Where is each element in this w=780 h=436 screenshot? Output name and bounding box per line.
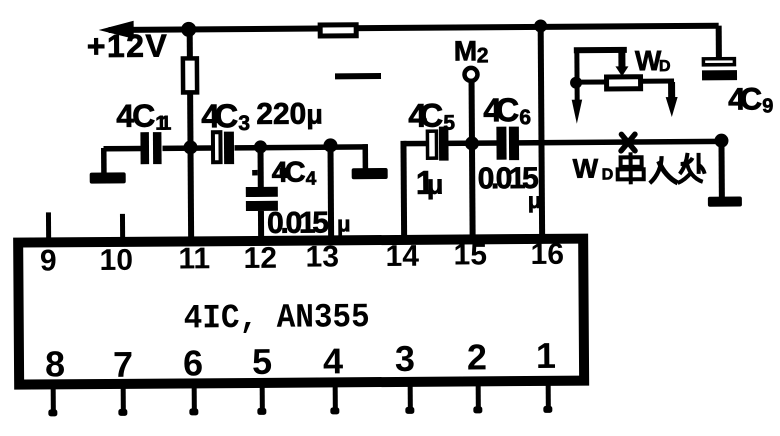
svg-text:μ: μ	[337, 211, 351, 236]
svg-text:4: 4	[323, 340, 343, 381]
svg-text:220: 220	[256, 98, 306, 131]
svg-text:0.015: 0.015	[267, 206, 329, 239]
svg-text:M: M	[454, 35, 478, 66]
svg-text:+12V: +12V	[87, 28, 168, 65]
svg-text:μ: μ	[306, 99, 323, 129]
svg-text:2: 2	[477, 44, 489, 67]
svg-text:4C: 4C	[201, 97, 238, 134]
svg-text:13: 13	[305, 240, 339, 273]
svg-text:1: 1	[536, 335, 556, 376]
svg-text:3: 3	[395, 338, 415, 379]
svg-text:10: 10	[99, 244, 133, 277]
svg-text:3: 3	[238, 112, 250, 135]
svg-text:μ: μ	[427, 170, 444, 200]
svg-text:6: 6	[519, 106, 531, 129]
svg-text:4: 4	[306, 169, 317, 190]
svg-text:12: 12	[243, 242, 277, 275]
svg-text:4C: 4C	[272, 157, 306, 189]
svg-text:W: W	[573, 154, 599, 184]
svg-text:4C: 4C	[408, 97, 443, 134]
svg-text:2: 2	[467, 336, 487, 377]
svg-text:4IC, AN355: 4IC, AN355	[184, 299, 370, 338]
svg-text:15: 15	[453, 238, 487, 271]
svg-text:11: 11	[178, 242, 210, 275]
svg-text:5: 5	[443, 112, 455, 135]
svg-text:14: 14	[385, 240, 419, 273]
svg-text:11: 11	[155, 113, 171, 135]
svg-text:9: 9	[40, 244, 57, 277]
svg-text:D: D	[602, 166, 614, 183]
svg-text:8: 8	[45, 343, 65, 384]
svg-text:4C: 4C	[483, 91, 519, 128]
svg-text:4C: 4C	[728, 81, 762, 116]
svg-text:9: 9	[762, 95, 773, 117]
svg-text:μ: μ	[528, 188, 542, 213]
svg-text:4C: 4C	[116, 98, 155, 134]
svg-text:7: 7	[113, 344, 133, 385]
svg-text:6: 6	[183, 342, 203, 383]
svg-text:16: 16	[530, 238, 564, 271]
svg-text:5: 5	[252, 341, 272, 382]
svg-text:D: D	[659, 58, 671, 75]
